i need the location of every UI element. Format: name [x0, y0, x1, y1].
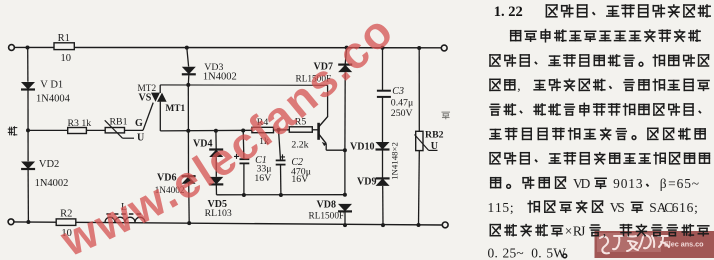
svg-text:U: U: [137, 132, 144, 143]
svg-text:1. 22: 1. 22: [494, 4, 523, 20]
wire C2 upper lead: [279, 130, 281, 160]
node B (junction R3 tap): [26, 128, 30, 132]
diode VD9 1N4148: [376, 177, 390, 179]
svg-text:0: 0: [621, 176, 628, 191]
node P (C2 bus2): [279, 193, 283, 197]
svg-text:Elec ans.co: Elec ans.co: [664, 240, 704, 249]
logo elecfans box: [595, 231, 714, 258]
diode VD2 1N4002: [21, 162, 35, 170]
wire VD1-VD2 segment: [27, 91, 29, 162]
svg-text:RB1: RB1: [110, 117, 128, 128]
wire VD3 to node I: [187, 75, 190, 85]
svg-text:;: ;: [510, 200, 514, 215]
node Q (top rail C3): [381, 46, 385, 50]
svg-text:3: 3: [636, 176, 643, 191]
triac VS: [151, 93, 160, 102]
wire C3 upper lead: [382, 48, 384, 90]
svg-text:RL1500F: RL1500F: [309, 211, 345, 221]
diode VD10 1N4148: [376, 142, 390, 150]
terminal input bottom-left: [8, 219, 14, 225]
diode VD4: [209, 148, 223, 150]
svg-text:250V: 250V: [391, 108, 413, 119]
wire bottom rail: [14, 222, 443, 225]
paragraph line 2: [511, 31, 521, 41]
node R2b (bottom rail): [381, 223, 385, 227]
svg-text:6: 6: [672, 200, 679, 215]
svg-text:9: 9: [613, 176, 620, 191]
node L2 (top rail VD7): [345, 46, 349, 50]
svg-text:.: .: [495, 246, 498, 260]
svg-text:5: 5: [502, 200, 509, 215]
varistor RB2: [416, 131, 423, 150]
svg-text:1: 1: [679, 200, 686, 215]
capacitor C1 plates: [240, 158, 250, 160]
resistor R1: [54, 43, 74, 50]
wire VD2 lower lead: [27, 170, 29, 222]
resistor R4: [252, 127, 274, 132]
wire VD10-VD9 segment: [382, 151, 384, 179]
wire collector drop: [327, 85, 329, 116]
svg-text:2: 2: [503, 246, 510, 260]
capacitor C2 plates: [276, 159, 286, 161]
wire column VD6 upper: [187, 85, 189, 176]
svg-text:,: ,: [603, 224, 606, 239]
svg-text:β: β: [660, 176, 667, 191]
svg-text:.: .: [538, 246, 541, 260]
node H (top rail to VD3): [185, 46, 189, 50]
svg-text:VD8: VD8: [317, 199, 336, 210]
svg-text:U: U: [431, 141, 438, 152]
wire MT1 lead: [159, 102, 161, 131]
svg-text:~: ~: [692, 176, 699, 191]
paragraph line 5: [490, 104, 500, 115]
wire MT2/VD3 to collector: [160, 84, 327, 86]
svg-text:2.2k: 2.2k: [291, 140, 308, 151]
svg-text:VD2: VD2: [39, 159, 59, 170]
node A top (junction top rail / VD1): [26, 46, 30, 50]
svg-text:16V: 16V: [291, 174, 308, 185]
svg-text:1N4148×2: 1N4148×2: [390, 142, 400, 180]
wire C1 upper lead: [242, 131, 245, 159]
svg-text:R1: R1: [58, 33, 70, 44]
wire VD9 lower lead: [382, 186, 384, 225]
label OUT (Chinese): [442, 112, 450, 119]
node O (C1 bus2): [242, 193, 246, 197]
wire C1 lower lead: [243, 163, 245, 195]
inductor L: [105, 217, 145, 222]
title text: [546, 5, 557, 17]
capacitor C3 plates: [377, 90, 391, 92]
polarity + (C2): [280, 154, 285, 159]
paragraph line 3: [490, 55, 500, 66]
wire RB2 upper lead: [418, 48, 420, 131]
wire lower bus: [217, 194, 345, 196]
resistor R3: [68, 128, 87, 134]
svg-text:0: 0: [488, 246, 495, 260]
svg-text:10: 10: [61, 53, 72, 64]
svg-text:~: ~: [516, 246, 523, 260]
wire R4 to R5: [274, 129, 290, 131]
svg-text:R3 1k: R3 1k: [68, 118, 92, 129]
polarity + (C1): [234, 154, 239, 159]
svg-text:G: G: [135, 118, 143, 129]
wire C3 to VD10: [382, 97, 384, 142]
node M (bus2 end): [343, 193, 347, 197]
node E (VD4 branch): [214, 129, 218, 133]
svg-text:1N4004: 1N4004: [36, 94, 71, 105]
wire VD7 to node K: [344, 72, 346, 150]
svg-text:×: ×: [565, 224, 573, 239]
node J (bottom rail): [187, 221, 191, 225]
svg-text:;: ;: [694, 200, 698, 215]
svg-text:VD10: VD10: [350, 142, 374, 153]
wire VD7 upper lead: [345, 48, 346, 65]
svg-text:C3: C3: [392, 86, 404, 97]
wire emitter drop: [325, 144, 327, 151]
svg-text:VD9: VD9: [357, 177, 376, 188]
paragraph line 10: [490, 225, 500, 236]
wire VD8 lower lead: [344, 212, 346, 226]
svg-text:RB2: RB2: [425, 129, 444, 140]
diode VD6 1N4002: [182, 175, 196, 177]
wire R3 to RB1: [86, 129, 105, 131]
node N (bottom rail VD8): [343, 223, 347, 227]
svg-text:1: 1: [488, 200, 495, 215]
wire VD5 to bus2: [215, 185, 217, 195]
diode VD8 RL1500F: [338, 204, 352, 212]
svg-text:1: 1: [628, 176, 635, 191]
paragraph line 6: [490, 130, 501, 139]
svg-text:16V: 16V: [254, 173, 271, 184]
label IN (Chinese): [8, 127, 16, 136]
varistor RB1: [105, 128, 124, 133]
diode VD5 RL103: [209, 177, 223, 185]
paragraph line 4: [490, 79, 500, 90]
svg-text:1N4002: 1N4002: [203, 72, 237, 83]
svg-text:,: ,: [517, 78, 520, 93]
svg-text:6: 6: [677, 176, 684, 191]
wire top rail: [14, 46, 441, 48]
wire VD1 upper lead: [27, 48, 29, 82]
paragraph line 8: [491, 178, 501, 188]
diode VD1 1N4004: [21, 82, 35, 90]
transistor VT emitter: [319, 134, 327, 144]
wire C2 lower lead: [280, 165, 282, 195]
wire VD6 lower lead: [188, 184, 191, 223]
svg-text:6: 6: [687, 200, 694, 215]
svg-text:VS: VS: [139, 93, 152, 104]
svg-text:RL103: RL103: [205, 208, 232, 219]
resistor R5: [289, 127, 312, 132]
paragraph line 7: [490, 153, 500, 164]
wire RB2 lower lead: [418, 151, 421, 225]
diode VD3 1N4002: [182, 67, 196, 75]
terminal output top-right: [441, 45, 447, 51]
transistor VT collector: [319, 116, 328, 127]
transistor VT base bar: [317, 123, 320, 140]
node I (MT2 wire junction): [186, 83, 190, 87]
node S (top rail RB2): [417, 46, 421, 50]
svg-text:=: =: [668, 176, 676, 191]
inductor L core (dashed): [106, 213, 143, 215]
svg-text:1: 1: [495, 200, 502, 215]
svg-text:0.47μ: 0.47μ: [391, 98, 413, 109]
wire VD4-VD5 segment: [215, 157, 217, 177]
wire RB1 to gate: [125, 129, 144, 131]
wire node B to R3: [28, 129, 68, 131]
svg-text:D: D: [581, 176, 591, 191]
svg-text:V D1: V D1: [40, 80, 63, 91]
node C (junction bottom rail): [26, 220, 30, 224]
terminal output bottom-right: [442, 222, 448, 228]
node D (column VD3/VD6 crossing): [186, 129, 190, 133]
logo script text: [600, 235, 669, 253]
diode VD7 RL1500F: [338, 63, 352, 65]
svg-text:0: 0: [531, 246, 538, 260]
wire VD4 upper lead: [215, 131, 217, 150]
wire gate lead G: [143, 103, 153, 131]
svg-text:S: S: [617, 200, 624, 215]
node T (bottom rail RB2): [417, 223, 421, 227]
node F (C1 branch): [241, 129, 245, 133]
node G2 (C2 branch): [277, 128, 281, 132]
wire node K to node M: [344, 150, 346, 195]
resistor R2: [56, 219, 76, 226]
svg-text:S: S: [649, 200, 656, 215]
terminal input top-left: [9, 45, 15, 51]
node K (emitter to VD7 column): [343, 148, 347, 152]
svg-text:5: 5: [684, 176, 691, 191]
wire VD3 upper lead: [187, 48, 189, 67]
wire middle bus (MT1 to R4): [160, 129, 252, 132]
svg-text:1N4002: 1N4002: [35, 178, 69, 189]
wire R5 to base: [312, 129, 317, 131]
svg-text:MT1: MT1: [166, 104, 186, 114]
wire MT2 stub: [159, 85, 161, 93]
svg-text:J: J: [580, 224, 585, 239]
